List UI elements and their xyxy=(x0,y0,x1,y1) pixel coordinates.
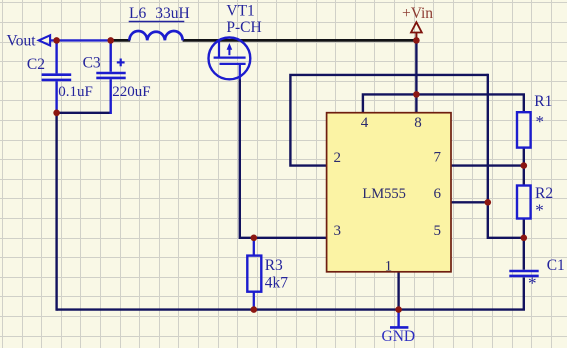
capacitor C1 plates xyxy=(509,270,538,273)
resistor R3 leads xyxy=(253,238,255,256)
node junction R3 bottom xyxy=(251,306,258,313)
transistor VT1 lower channel bar xyxy=(220,63,246,65)
node junction R3 top xyxy=(251,235,258,242)
node junction at C2/C3 bottom xyxy=(53,110,60,117)
svg-text:LM555: LM555 xyxy=(362,186,406,202)
wire C2/C3 bottom link xyxy=(57,112,111,114)
inductor L6 coil xyxy=(129,31,182,40)
wire C1 bottom lead xyxy=(523,277,525,309)
wire transistor drain down to pin3 row xyxy=(240,79,327,238)
node junction at Vout port xyxy=(53,37,60,44)
capacitor C3 plates xyxy=(96,72,125,75)
svg-text:4k7: 4k7 xyxy=(265,275,289,292)
svg-text:33uH: 33uH xyxy=(155,5,189,22)
transistor VT1 gate bar xyxy=(218,39,220,57)
node junction pin6/rail xyxy=(485,199,492,206)
resistor R2 body xyxy=(517,186,531,219)
svg-text:GND: GND xyxy=(382,328,416,345)
capacitor C2 leads xyxy=(55,40,57,73)
capacitor C3 leads xyxy=(109,40,111,71)
svg-text:VT1: VT1 xyxy=(226,2,254,19)
svg-text:*: * xyxy=(536,112,545,131)
power port +Vin triangle xyxy=(411,22,422,32)
resistor R3 body xyxy=(247,256,261,292)
C3 plus polarity mark xyxy=(117,61,125,63)
svg-text:6: 6 xyxy=(433,186,441,202)
port Vout triangle xyxy=(39,35,50,45)
svg-text:+Vin: +Vin xyxy=(402,5,433,22)
svg-text:C3: C3 xyxy=(83,55,101,72)
wire R2 bottom lead xyxy=(523,219,525,238)
transistor VT1 upper channel bar xyxy=(214,56,246,58)
wire bottom ground rail xyxy=(57,308,525,310)
node junction pins 4/8 xyxy=(413,91,420,98)
op-amp/timer U1 LM555 body xyxy=(327,113,451,272)
svg-text:1: 1 xyxy=(385,258,393,274)
wire R2 top lead xyxy=(523,166,525,186)
svg-text:P-CH: P-CH xyxy=(226,19,261,36)
node junction at +Vin xyxy=(413,37,420,44)
svg-text:0.1uF: 0.1uF xyxy=(58,84,93,100)
resistor R1 body xyxy=(517,112,531,147)
wire left rail xyxy=(55,113,57,311)
svg-text:8: 8 xyxy=(414,115,422,131)
wire top net to inductor (black) xyxy=(110,39,131,42)
svg-text:*: * xyxy=(535,201,544,220)
svg-text:7: 7 xyxy=(433,150,441,166)
svg-text:5: 5 xyxy=(433,223,441,239)
svg-text:C1: C1 xyxy=(547,257,565,274)
wire C1 top lead xyxy=(523,238,525,270)
svg-text:C2: C2 xyxy=(27,56,45,73)
svg-text:220uF: 220uF xyxy=(112,84,150,100)
node junction R1/R2/pin7 xyxy=(521,162,528,169)
node junction at C3 top tap xyxy=(107,37,114,44)
svg-text:2: 2 xyxy=(333,150,341,166)
transistor VT1 circle xyxy=(209,38,251,80)
ground symbol GND xyxy=(397,310,399,328)
wire +Vin down to pin8 row xyxy=(415,39,417,94)
svg-text:3: 3 xyxy=(333,223,341,239)
transistor VT1 arrow xyxy=(228,48,230,56)
svg-text:R2: R2 xyxy=(535,185,553,202)
wire pin 6 to rail xyxy=(451,201,488,203)
svg-text:L6: L6 xyxy=(129,5,146,22)
transistor VT1 drain lead inside circle xyxy=(239,64,241,80)
node junction R2/C1/rail xyxy=(521,235,528,242)
wire inductor to +Vin (black) xyxy=(183,39,417,42)
wire pins 4/8 to R1 top xyxy=(363,94,524,112)
svg-text:R3: R3 xyxy=(265,257,283,274)
pin 8 stub xyxy=(415,94,417,112)
svg-text:4: 4 xyxy=(361,115,369,131)
capacitor C2 plates xyxy=(42,73,72,76)
svg-text:Vout: Vout xyxy=(7,33,37,50)
wire Vout net (blue segment from port to C3 tap) xyxy=(50,39,111,41)
svg-text:*: * xyxy=(528,274,537,293)
label L6 33uH underline xyxy=(129,21,185,23)
wire right rail down to R2/C1 junction xyxy=(488,74,524,238)
svg-text:R1: R1 xyxy=(534,93,552,110)
node junction GND xyxy=(395,306,402,313)
wire pin 7 to R1/R2 junction xyxy=(451,164,524,166)
wire pin2 loop (long horizontal y=75) xyxy=(290,75,487,166)
wire R1 bottom lead xyxy=(523,148,525,166)
wire pin1 down to ground rail xyxy=(397,272,399,310)
